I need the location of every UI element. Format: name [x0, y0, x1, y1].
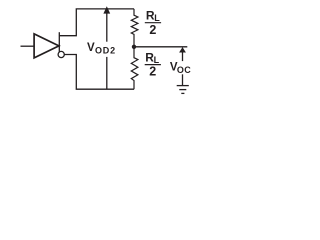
wire middle node to VOC — [134, 46, 187, 48]
wire input — [21, 45, 35, 47]
wire VOC stem upper — [182, 52, 184, 61]
svg-text:OC: OC — [177, 65, 191, 75]
node junction dot — [132, 45, 136, 49]
svg-text:2: 2 — [149, 64, 156, 78]
wire VOC stem lower — [182, 74, 184, 85]
fraction bar top RL/2 — [145, 22, 161, 24]
arrowhead VOD2 — [103, 6, 110, 13]
inverting output bubble — [58, 51, 64, 57]
wire output stub vertical at apex — [58, 32, 60, 52]
fraction bar bottom RL/2 — [145, 64, 161, 66]
svg-text:2: 2 — [149, 23, 156, 37]
arrowhead VOC — [179, 47, 186, 52]
wire VOD2 stem lower — [106, 57, 108, 89]
resistor RL/2 top — [131, 9, 138, 47]
label VOC — [170, 62, 191, 75]
resistor RL/2 bottom — [131, 47, 138, 89]
svg-text:L: L — [154, 13, 160, 23]
label RL/2 top — [146, 8, 160, 36]
label RL/2 bottom — [145, 51, 159, 79]
label VOD2 — [87, 42, 116, 55]
driver U1 (buffer triangle) — [34, 34, 59, 58]
wire top connector — [59, 9, 134, 36]
wire VOD2 stem upper — [106, 13, 108, 42]
svg-text:V: V — [87, 42, 95, 54]
ground — [177, 86, 189, 94]
svg-text:OD2: OD2 — [95, 46, 116, 56]
wire bottom connector — [64, 55, 134, 90]
